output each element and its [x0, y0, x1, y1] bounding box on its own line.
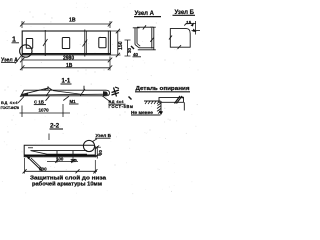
svg-text:40: 40 — [133, 52, 139, 57]
svg-text:500: 500 — [39, 167, 47, 172]
svg-text:15: 15 — [186, 20, 191, 25]
svg-text:1070: 1070 — [39, 107, 50, 112]
svg-text:30: 30 — [127, 47, 132, 53]
svg-text:150: 150 — [118, 41, 124, 50]
svg-text:С 1Б: С 1Б — [34, 100, 44, 105]
svg-text:Защитный слой до низа: Защитный слой до низа — [30, 174, 106, 181]
svg-text:80: 80 — [98, 150, 103, 155]
svg-text:2980: 2980 — [63, 55, 74, 61]
svg-text:ГОСТ-5Вм: ГОСТ-5Вм — [109, 104, 134, 109]
svg-text:1В: 1В — [66, 63, 73, 69]
svg-text:3Ф: 3Ф — [71, 158, 77, 163]
svg-text:М1: М1 — [70, 99, 77, 104]
svg-text:рабочей арматуры 10мм: рабочей арматуры 10мм — [32, 180, 102, 187]
svg-text:1В: 1В — [69, 17, 76, 23]
svg-text:ГОСТ-8478: ГОСТ-8478 — [1, 105, 20, 110]
